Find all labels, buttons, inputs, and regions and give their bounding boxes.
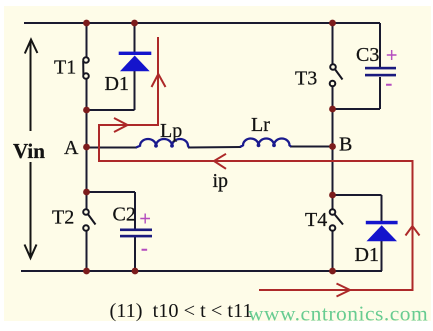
svg-text:D1: D1 bbox=[105, 73, 129, 95]
svg-text:-: - bbox=[386, 73, 393, 95]
svg-text:Vin: Vin bbox=[13, 139, 45, 163]
svg-text:D1: D1 bbox=[355, 244, 379, 266]
svg-text:ip: ip bbox=[213, 170, 229, 192]
svg-text:T4: T4 bbox=[305, 209, 327, 231]
svg-text:C2: C2 bbox=[113, 204, 136, 226]
svg-text:Lp: Lp bbox=[160, 120, 182, 142]
svg-text:+: + bbox=[386, 45, 397, 67]
svg-text:T1: T1 bbox=[54, 57, 76, 79]
svg-text:-: - bbox=[141, 238, 148, 260]
svg-text:www.cntronics.com: www.cntronics.com bbox=[248, 302, 428, 326]
svg-text:+: + bbox=[140, 208, 151, 230]
svg-text:T2: T2 bbox=[52, 207, 74, 229]
svg-text:B: B bbox=[339, 134, 352, 156]
svg-text:(11) t10 < t < t11: (11) t10 < t < t11 bbox=[110, 300, 253, 322]
svg-text:T3: T3 bbox=[295, 68, 317, 90]
svg-text:A: A bbox=[64, 137, 79, 159]
svg-text:Lr: Lr bbox=[251, 114, 270, 136]
svg-text:C3: C3 bbox=[356, 44, 379, 66]
